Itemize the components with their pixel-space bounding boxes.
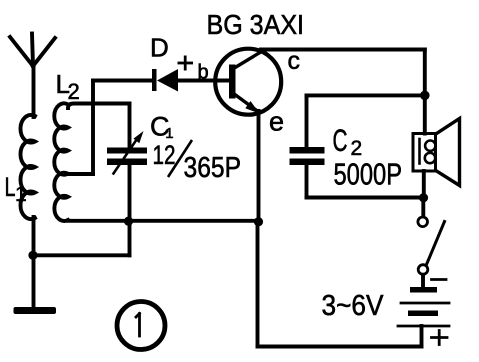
svg-text:3~6V: 3~6V [322,290,385,322]
svg-text:D: D [150,33,169,63]
svg-text:c: c [288,47,301,75]
svg-text:2: 2 [68,79,80,104]
svg-text:L: L [5,172,16,202]
svg-text:e: e [269,107,284,137]
svg-text:b: b [198,62,209,84]
svg-text:BG 3AXI: BG 3AXI [207,9,305,40]
svg-text:1: 1 [15,183,27,206]
svg-text:C: C [333,122,348,158]
svg-text:365P: 365P [184,152,242,184]
svg-text:5000P: 5000P [334,156,403,191]
svg-text:12: 12 [153,140,176,170]
